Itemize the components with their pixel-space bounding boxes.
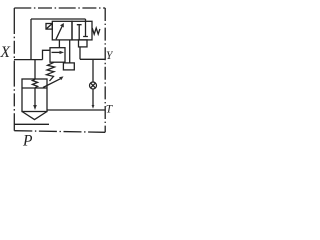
orifice box A under valve drain port — [79, 40, 88, 47]
relief flow arrow inside square — [52, 51, 61, 53]
blocked port (bottom) in right box — [77, 25, 82, 40]
svg-text:Y: Y — [106, 50, 113, 62]
pilot relief valve square — [50, 48, 65, 63]
adjustment arrow through spring — [43, 79, 61, 88]
enclosure boundary bottom (dash-dot) — [14, 131, 105, 133]
enclosure boundary top (dash-dot) — [14, 7, 105, 9]
wire: top supply line — [31, 18, 86, 20]
wire: main valve pilot riser — [34, 60, 36, 79]
wire: valve top port drop — [85, 19, 87, 21]
wire: drain from orifice A down to Y line — [79, 47, 81, 59]
wire: X pilot line horizontal — [14, 59, 43, 61]
valve return spring (right, W zigzag) — [92, 28, 100, 34]
arrowhead into T line — [92, 105, 95, 109]
main valve chamber divider — [22, 87, 47, 89]
solenoid diagonal — [46, 24, 52, 30]
main poppet arrow shaft — [34, 88, 36, 106]
wire: right drain vertical (Y to T) — [92, 59, 94, 106]
wire: T line to boundary — [47, 109, 105, 111]
main valve body — [22, 79, 47, 112]
svg-text:X: X — [0, 44, 11, 61]
poppet seat V — [22, 112, 47, 120]
wire: Y line to boundary — [80, 58, 105, 60]
pilot adjustable spring (zigzag below square) — [47, 62, 55, 81]
solenoid valve body: left box — [52, 21, 72, 40]
wire: jog up to pilot square inlet — [43, 50, 51, 59]
blocked port (top) in right box — [83, 21, 88, 36]
main valve spring (top, vertical zigzag) — [32, 79, 37, 88]
wire: pilot drain drop (valve to square top) — [58, 40, 60, 48]
flow path arrow in left box — [56, 26, 62, 40]
orifice symbol (circle with cross) — [90, 82, 97, 89]
svg-text:T: T — [106, 103, 113, 115]
solenoid symbol box — [46, 24, 52, 30]
main poppet arrowhead (down) — [33, 105, 37, 110]
solenoid valve body: right box — [72, 21, 92, 40]
enclosure boundary right (dash-dot) — [104, 8, 106, 132]
orifice box B below-right of square — [63, 63, 74, 70]
wire: drop beside square to orifice box B — [69, 40, 71, 63]
adjustment arrowhead — [59, 76, 64, 80]
arrowhead of flow path — [60, 23, 64, 28]
wire: P gallery line under poppet — [14, 123, 49, 125]
enclosure boundary left (dash-dot) — [13, 8, 15, 131]
relief flow arrowhead — [60, 51, 65, 54]
svg-text:P: P — [22, 133, 33, 150]
wire: X riser to top line — [30, 19, 32, 60]
